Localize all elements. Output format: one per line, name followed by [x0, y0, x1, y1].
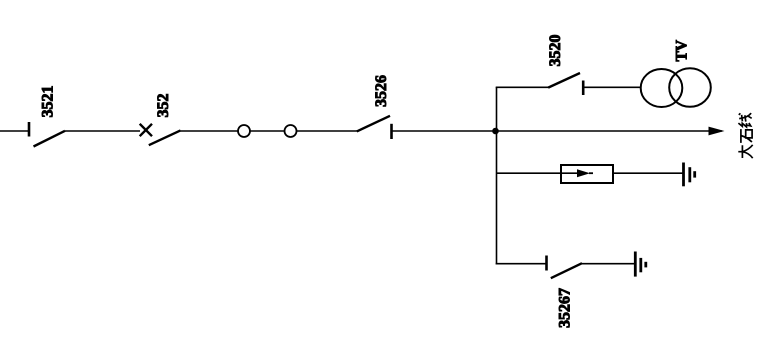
wire: switch 3521 to breaker 352	[65, 130, 140, 132]
char 石	[741, 129, 752, 143]
wire: arrester arrow stub	[589, 172, 593, 174]
wire: incoming line left edge to switch 3521	[0, 130, 29, 132]
CT circle 1	[238, 125, 250, 137]
wire: switch 3520 to voltage transformer TV	[583, 86, 641, 88]
wire: switch 35267 to ground	[582, 263, 635, 265]
ground symbol of arrester branch	[684, 163, 695, 187]
wire: bottom branch horizontal to earthing switch 35267	[496, 263, 547, 265]
wire: between CT circles	[250, 130, 285, 132]
disconnect switch 3521 contact tick	[28, 122, 31, 137]
svg-text:3521: 3521	[40, 86, 57, 118]
breaker 352 X symbol	[140, 124, 152, 136]
svg-text:3526: 3526	[373, 75, 390, 107]
surge arrester box	[561, 165, 613, 183]
surge arrester arrow inside box	[577, 169, 590, 177]
wire: top branch horizontal to switch 3520	[496, 86, 549, 88]
disconnect switch 3520 blade	[548, 73, 580, 88]
wire: vertical branch bus from top branch to bottom branch	[496, 87, 498, 264]
disconnect switch 3520 contact tick	[582, 81, 585, 96]
CT circle 2	[285, 125, 297, 137]
char 大	[738, 145, 752, 158]
arrowhead of outgoing line	[709, 127, 725, 136]
earthing switch 35267 contact tick	[545, 256, 548, 271]
svg-text:35267: 35267	[557, 288, 574, 328]
wire: CT circle 2 to switch 3526	[297, 130, 358, 132]
wire: arrester box to ground	[613, 172, 683, 174]
voltage transformer TV circle 1	[641, 69, 683, 107]
wire: arrester branch from vertical bus into arrester box	[497, 172, 578, 174]
svg-text:TV: TV	[674, 39, 691, 61]
disconnect switch 3526 blade	[357, 116, 390, 132]
ground symbol of earthing switch branch	[635, 252, 646, 277]
wire: breaker 352 to CT circle 1	[181, 130, 239, 132]
svg-text:3520: 3520	[547, 35, 564, 67]
wire: switch 3526 to line arrow (main bus through junction)	[392, 130, 723, 132]
label 大石线 (line name, drawn as strokes, rotated)	[738, 113, 752, 158]
node: junction dot on main bus	[492, 128, 499, 135]
earthing switch 35267 blade	[551, 263, 582, 278]
char 线	[738, 113, 751, 127]
breaker 352 blade	[149, 130, 181, 145]
voltage transformer TV circle 2	[669, 68, 711, 107]
disconnect switch 3526 contact tick	[390, 124, 393, 139]
disconnect switch 3521 blade	[34, 131, 66, 147]
svg-text:352: 352	[155, 94, 172, 118]
